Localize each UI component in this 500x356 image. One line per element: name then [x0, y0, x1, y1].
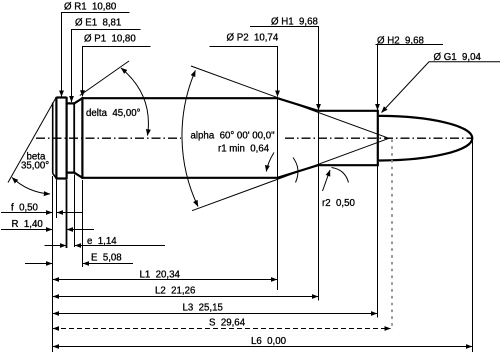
svg-text:delta 45,00°: delta 45,00° — [86, 108, 141, 119]
rim back extension line — [66, 180, 68, 249]
beta angle arc — [12, 178, 50, 195]
r1 leader arrow — [266, 153, 274, 172]
rim bevel lower silhouette — [53, 173, 57, 178]
H1 extension line below — [318, 112, 320, 301]
rim bevel edge line — [55, 97, 57, 179]
f dimension right line — [57, 212, 83, 214]
svg-text:L2 21,26: L2 21,26 — [155, 286, 195, 297]
groove end extension line — [74, 175, 76, 248]
P1 leader line — [83, 47, 151, 97]
svg-text:r1 min 0,64: r1 min 0,64 — [218, 144, 270, 155]
e dimension right line — [75, 245, 165, 247]
alpha cone line upper — [191, 66, 389, 138]
H2 leader line — [376, 45, 444, 111]
delta angle line — [80, 61, 129, 96]
E1 leader line — [72, 30, 141, 103]
rim front face line — [65, 97, 67, 179]
L2 dimension line — [53, 296, 318, 298]
f dimension left line — [1, 212, 52, 214]
P2 leader line — [210, 47, 278, 97]
svg-text:r2 0,50: r2 0,50 — [322, 198, 355, 209]
P2 extension line below — [277, 99, 279, 290]
svg-text:Ø H1 9,68: Ø H1 9,68 — [271, 17, 318, 28]
svg-text:alpha 60° 00' 00,0": alpha 60° 00' 00,0" — [191, 130, 276, 141]
rim chamfer extension line (f) — [56, 180, 58, 219]
centerline (case axis, dash-dot) — [36, 137, 473, 139]
case body start edge line — [81, 97, 83, 179]
e dimension left line — [45, 245, 67, 247]
svg-text:S 29,64: S 29,64 — [209, 318, 246, 329]
beta angle line — [8, 97, 56, 182]
L3 dimension line — [53, 313, 377, 315]
L6 dimension line — [53, 346, 472, 348]
svg-text:Ø P1 10,80: Ø P1 10,80 — [84, 34, 136, 45]
cartridge case outline — [56, 98, 377, 179]
rim face extension line — [52, 176, 54, 352]
svg-text:L6 0,00: L6 0,00 — [251, 336, 287, 347]
r2 fillet arc left — [293, 158, 298, 183]
svg-text:35,00°: 35,00° — [21, 161, 49, 172]
svg-text:L1 20,34: L1 20,34 — [140, 270, 181, 281]
bullet ogive — [379, 116, 473, 161]
G1 leader line — [382, 62, 500, 113]
r2 leader arrow — [323, 170, 331, 191]
R dimension right line — [67, 229, 94, 231]
H2 extension line below — [377, 112, 379, 318]
E dimension right line — [83, 263, 133, 265]
delta angle arc — [121, 68, 148, 136]
E dimension left line — [25, 263, 52, 265]
R1 leader line — [62, 13, 130, 97]
alpha angle arc — [182, 70, 198, 206]
S extension line (gray dashed) — [391, 140, 393, 331]
E dimension extension line — [82, 180, 84, 267]
extractor groove end line — [73, 103, 75, 172]
svg-text:Ø R1 10,80: Ø R1 10,80 — [64, 2, 117, 13]
svg-text:Ø P2 10,74: Ø P2 10,74 — [227, 32, 279, 43]
svg-text:L3 25,15: L3 25,15 — [183, 303, 223, 314]
r2 radius arc — [332, 168, 349, 183]
L1 dimension line — [53, 279, 277, 281]
bullet tip extension line — [472, 141, 474, 353]
alpha cone line lower — [192, 138, 389, 210]
svg-text:R 1,40: R 1,40 — [12, 219, 44, 230]
R dimension left line — [1, 229, 52, 231]
svg-text:f 0,50: f 0,50 — [11, 203, 39, 214]
rim rear face line — [52, 103, 54, 174]
svg-text:Ø E1 8,81: Ø E1 8,81 — [75, 18, 121, 29]
H1 leader line — [250, 27, 319, 111]
S dimension line (dashed) — [53, 328, 391, 330]
svg-text:E 5,08: E 5,08 — [91, 253, 122, 264]
